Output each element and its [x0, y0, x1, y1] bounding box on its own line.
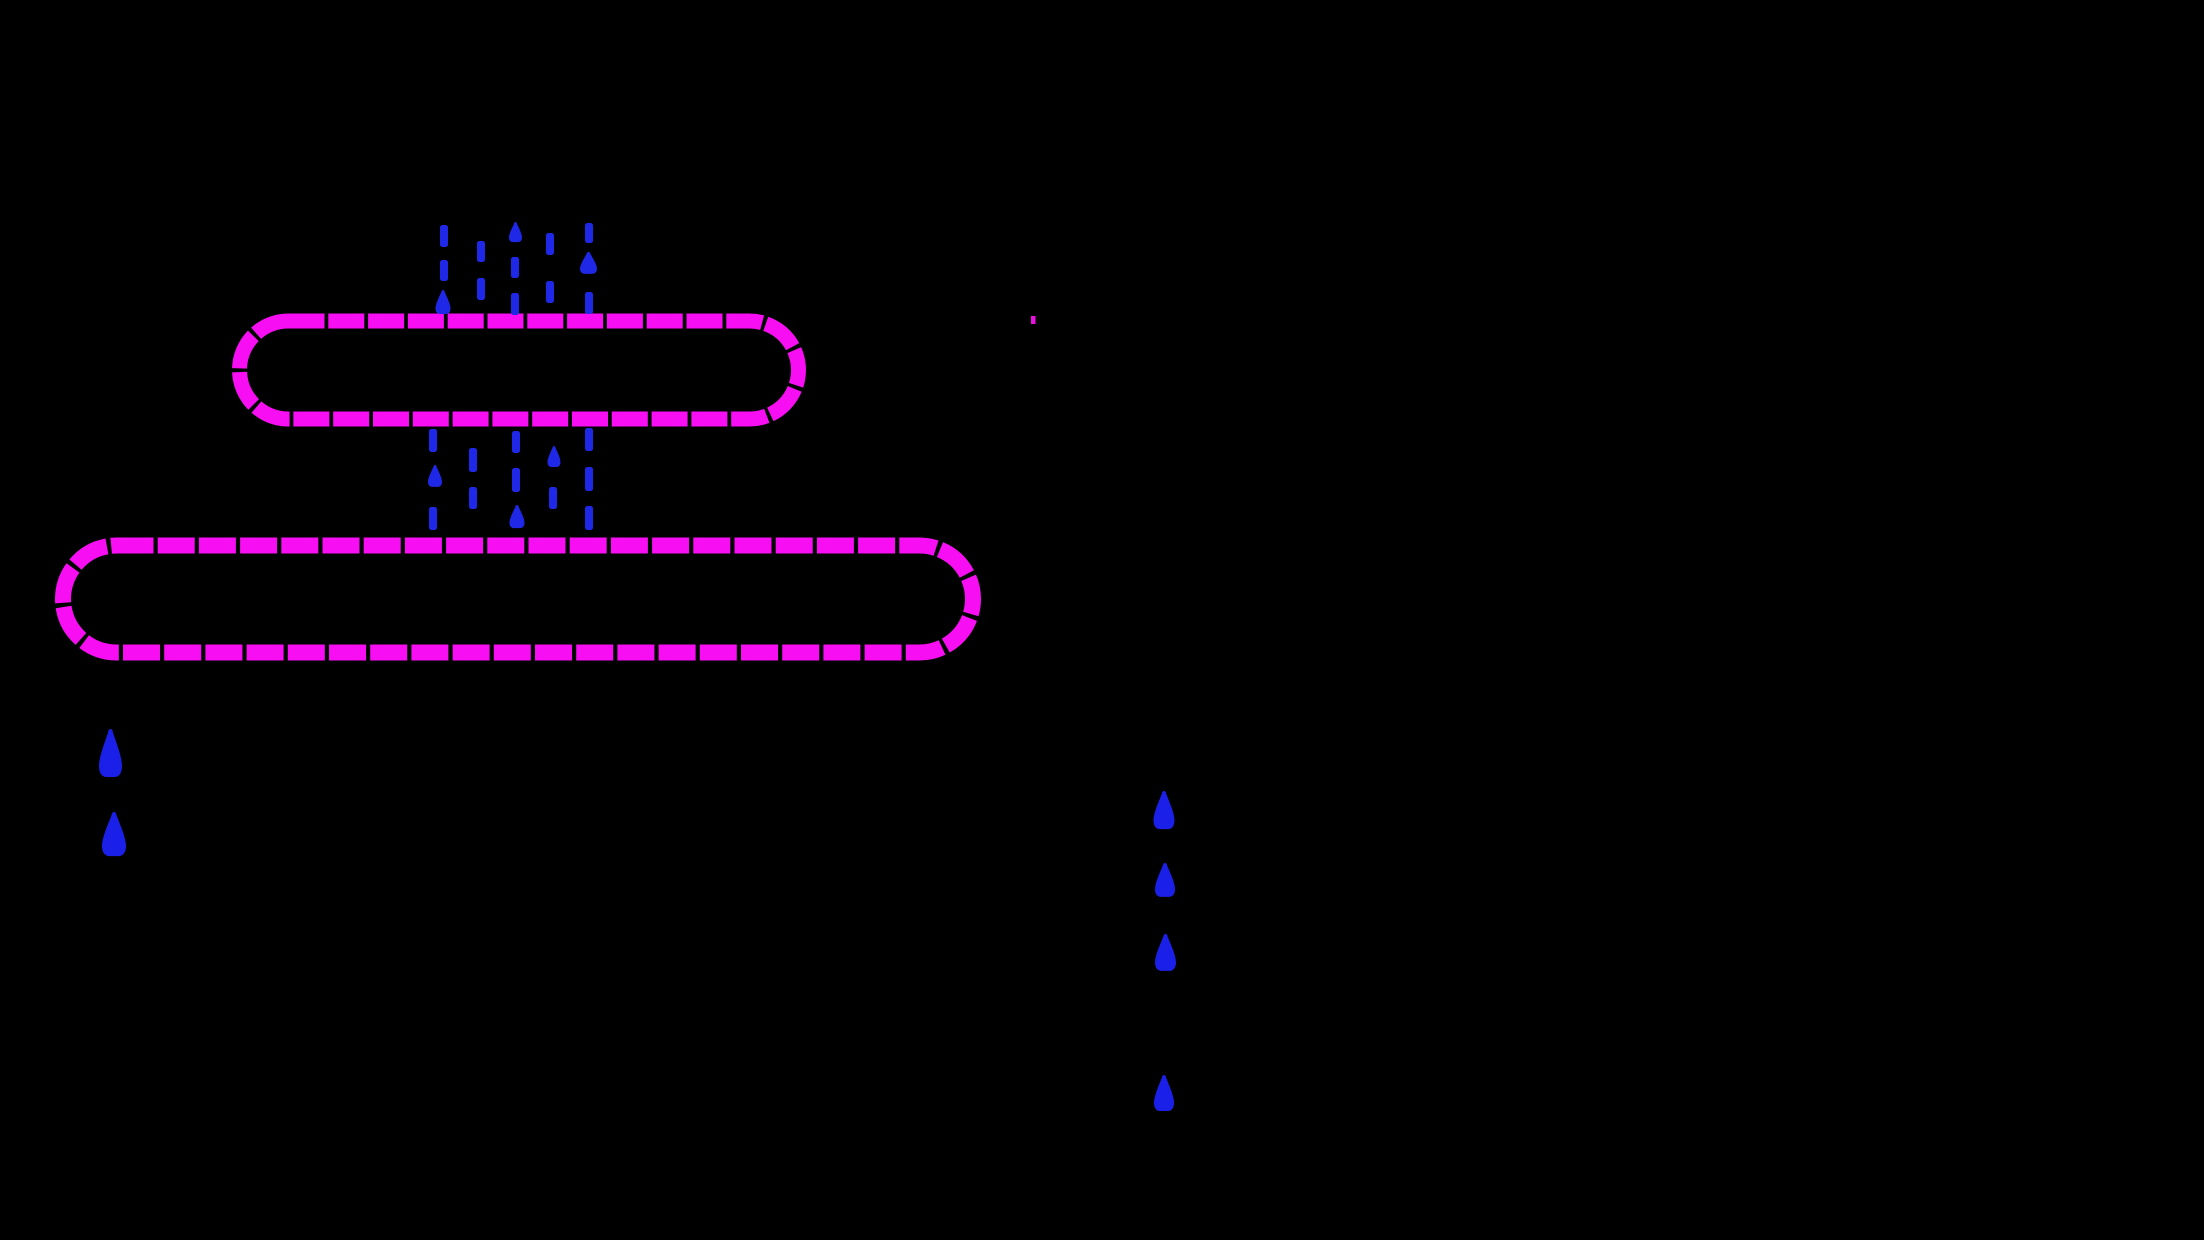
right droplet column 1	[1154, 791, 1175, 829]
B3 droplet	[510, 505, 525, 528]
rain band A (above upper cloud)	[436, 222, 598, 315]
A3 droplet	[509, 222, 522, 242]
B4 droplet	[548, 446, 561, 467]
right droplet column 3	[1155, 934, 1176, 971]
left falling droplet 1	[99, 729, 122, 777]
right droplet column 4	[1154, 1075, 1174, 1111]
A5 dash	[585, 223, 593, 243]
rain band B (between clouds)	[428, 428, 593, 530]
A5 dash	[585, 292, 593, 314]
left falling droplet 2	[102, 812, 126, 856]
B3 dashes	[512, 431, 520, 453]
A2 dashes	[477, 241, 485, 262]
B2 dashes	[469, 448, 477, 472]
B1 dash	[429, 507, 437, 530]
B1 droplet	[428, 465, 442, 487]
A5 droplet	[580, 252, 597, 274]
A1 dashes	[440, 225, 448, 247]
A4 dashes	[546, 233, 554, 255]
right droplet column 2	[1155, 863, 1175, 897]
A3 dashes	[511, 257, 519, 278]
cloud layer 2 (lower magenta dashed pill)	[63, 546, 973, 653]
A1 droplet	[436, 290, 451, 314]
B1 dash	[429, 429, 437, 452]
stray magenta mark	[1031, 316, 1036, 324]
B5 dashes	[585, 428, 593, 451]
cloud layer 1 (upper magenta dashed pill)	[240, 321, 799, 419]
B4 dash	[549, 487, 557, 509]
